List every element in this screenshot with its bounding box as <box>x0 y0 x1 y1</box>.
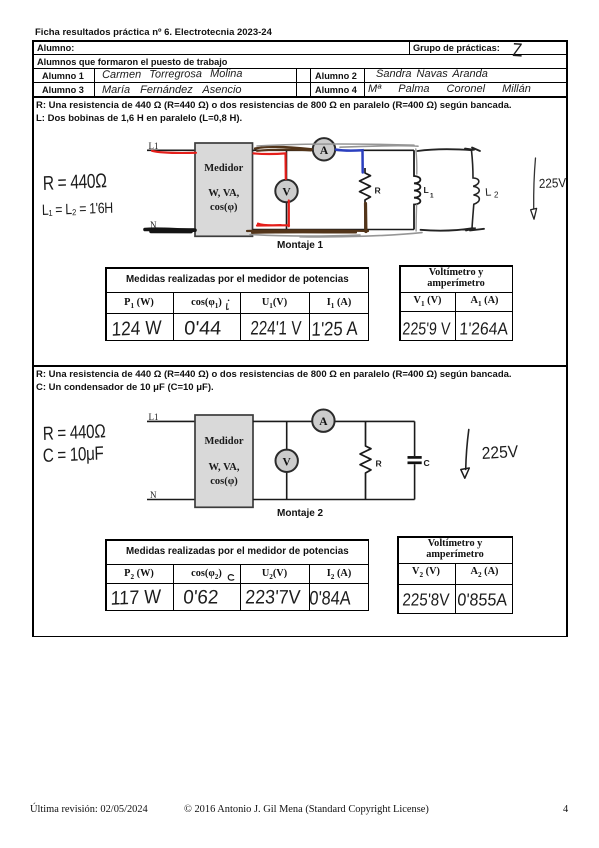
svg-text:2: 2 <box>494 191 499 200</box>
svg-text:W, VA,: W, VA, <box>208 462 239 473</box>
svg-text:225V: 225V <box>539 175 567 191</box>
node N label (montaje 1) <box>150 220 157 230</box>
svg-text:R: R <box>375 186 382 196</box>
svg-text:1: 1 <box>430 193 434 200</box>
hand note L1=L2=1'6H (montaje 1) <box>42 200 113 219</box>
header table text <box>37 43 74 53</box>
ammeter A (montaje 2) <box>312 410 334 432</box>
wire top rail (montaje 2) <box>253 420 415 422</box>
hand tick in cos phi2 header <box>228 575 234 580</box>
ammeter A (montaje 1) <box>313 138 335 160</box>
svg-text:V: V <box>283 456 292 468</box>
svg-text:cos(φ): cos(φ) <box>210 202 238 213</box>
voltmeter V (montaje 1) <box>275 180 297 202</box>
svg-text:225V: 225V <box>481 442 518 463</box>
hand text 225V (montaje 2) <box>481 442 518 463</box>
svg-text:C: C <box>424 458 430 468</box>
wire L1 input (montaje 1) <box>147 149 196 151</box>
wire hand red: L1 lead overlay <box>152 151 196 153</box>
montaje 1 label <box>277 240 323 251</box>
svg-text:R = 440Ω: R = 440Ω <box>43 169 107 194</box>
node N label (montaje 2) <box>150 490 157 500</box>
wire top rail (montaje 1) <box>253 149 415 151</box>
wire hand black: N lead overlay <box>145 229 195 231</box>
svg-text:L: L <box>424 185 429 195</box>
voltmeter V (montaje 2) <box>276 450 298 472</box>
inductor L2 hand-drawn bottom wire <box>421 228 485 230</box>
section 1 text <box>36 100 512 111</box>
hand note R=440 ohm (montaje 1) <box>43 169 107 194</box>
inductor L2 hand label <box>485 186 499 199</box>
wire hand red: meter out to voltmeter top <box>254 153 286 179</box>
wire hand grey sketch: right <box>416 149 417 231</box>
inductor L2 hand-drawn right wire + coil <box>472 151 480 229</box>
section divider <box>32 365 568 367</box>
svg-text:L1: L1 <box>149 412 159 422</box>
title <box>35 27 272 38</box>
svg-text:L: L <box>485 186 492 198</box>
wire N input (montaje 2) <box>147 499 196 501</box>
svg-text:W, VA,: W, VA, <box>208 188 239 199</box>
section 2 text <box>36 369 512 380</box>
montaje 2 label <box>277 508 323 519</box>
svg-text:A: A <box>320 145 329 157</box>
wire voltmeter branch (montaje 2) <box>286 421 288 499</box>
header table vertical dividers <box>409 40 410 55</box>
svg-text:N: N <box>150 490 157 500</box>
hand tick in cos phi1 header <box>227 300 230 310</box>
wire N input (montaje 1) <box>147 228 196 230</box>
footer <box>30 804 148 815</box>
hand note C=10uF (montaje 2) <box>43 442 104 467</box>
hand text 225V (montaje 1) <box>539 175 567 191</box>
wire bottom rail (montaje 1) <box>253 229 415 231</box>
svg-text:C = 10μF: C = 10μF <box>43 442 104 467</box>
node L1 label (montaje 2) <box>149 412 159 422</box>
header table horizontal lines <box>32 54 568 55</box>
svg-text:cos(φ): cos(φ) <box>210 476 238 487</box>
svg-text:Medidor: Medidor <box>204 436 243 447</box>
inductor L2 hand-drawn box top wire <box>418 148 481 152</box>
wire hand brown: bottom rail overlay <box>247 230 368 232</box>
svg-text:R: R <box>376 459 383 469</box>
wire hand grey sketch: top <box>257 144 418 147</box>
power meter (Medidor) U1 montaje 1 <box>195 143 253 236</box>
resistor R (montaje 1) <box>360 168 382 230</box>
outer frame <box>32 40 568 42</box>
wire hand brown: resistor lower branch <box>364 204 368 232</box>
svg-text:L₁ = L₂ = 1'6H: L₁ = L₂ = 1'6H <box>42 200 113 219</box>
wire hand red: voltmeter bottom to meter <box>257 201 289 227</box>
svg-text:Medidor: Medidor <box>204 163 243 174</box>
hand arrow 225V (montaje 1) <box>531 158 537 219</box>
svg-text:V: V <box>282 187 291 199</box>
inductor L1 (montaje 1) <box>414 150 434 229</box>
handwritten header entries <box>512 40 523 63</box>
capacitor C (montaje 2) <box>408 421 430 499</box>
wire L1 input (montaje 2) <box>147 420 196 422</box>
hand arrow 225V (montaje 2) <box>461 430 470 479</box>
resistor R (montaje 2) <box>360 421 383 499</box>
wire bottom rail (montaje 2) <box>253 499 415 501</box>
node L1 label (montaje 1) <box>149 141 159 151</box>
hand note R=440 ohm (montaje 2) <box>43 420 106 445</box>
power meter (Medidor) U2 montaje 2 <box>195 415 253 507</box>
wire voltmeter branch (montaje 1) <box>286 150 288 229</box>
svg-text:R = 440Ω: R = 440Ω <box>43 420 106 445</box>
wire hand grey sketch: bottom <box>250 233 422 237</box>
wire hand brown: top rail overlay <box>255 147 312 151</box>
wire hand blue: ammeter to resistor node <box>336 150 363 173</box>
svg-text:A: A <box>319 416 328 428</box>
